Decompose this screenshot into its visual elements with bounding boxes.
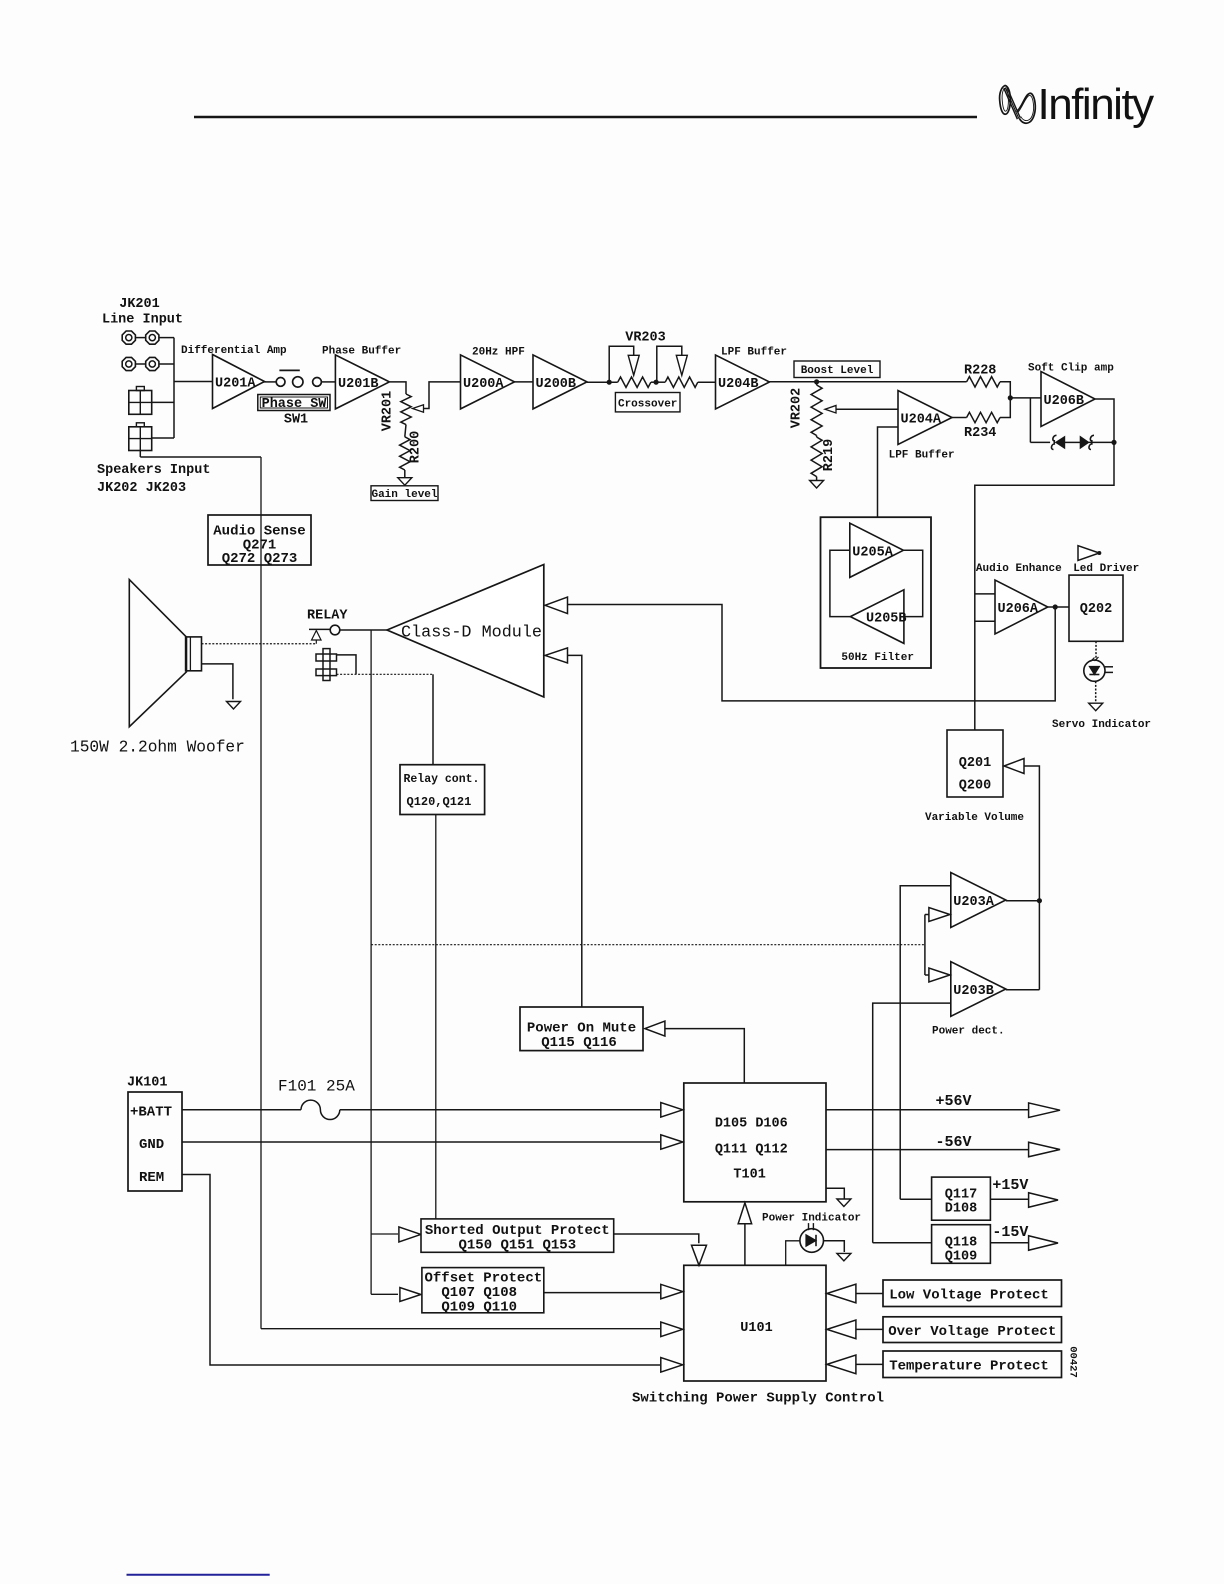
wire speakers sense to audio sense column	[140, 456, 261, 458]
svg-text:VR203: VR203	[625, 331, 666, 346]
node feedback right junction	[1111, 440, 1116, 445]
block U101 box	[684, 1265, 826, 1381]
op-amp U206B	[1041, 372, 1095, 427]
svg-text:U204B: U204B	[718, 377, 759, 392]
wire +BATT to fuse	[182, 1109, 301, 1111]
wire VR202 wiper to U204A	[836, 408, 898, 410]
wire bus to U201A	[174, 381, 213, 383]
svg-text:Q111 Q112: Q111 Q112	[715, 1143, 788, 1158]
wire power-on-mute feed from D105	[665, 1029, 745, 1083]
block Class-D Module triangle	[387, 565, 544, 698]
block 50Hz Filter box	[821, 517, 932, 668]
svg-text:Low Voltage Protect: Low Voltage Protect	[889, 1287, 1049, 1303]
svg-text:Q109 Q110: Q109 Q110	[441, 1300, 517, 1316]
arrow +15V	[1029, 1193, 1058, 1208]
ground below R200	[404, 470, 406, 478]
svg-text:LPF Buffer: LPF Buffer	[721, 347, 787, 359]
led driver symbol triangle	[1078, 546, 1099, 561]
wire U205A out loop	[903, 550, 922, 616]
arrow offset into U101	[661, 1284, 683, 1299]
arrow U203A lower input	[929, 908, 950, 922]
VR202 wiper arrow	[825, 405, 836, 413]
svg-text:-56V: -56V	[936, 1134, 972, 1151]
arrow into Q201 box	[1004, 759, 1024, 774]
svg-text:GND: GND	[139, 1137, 164, 1153]
arrow up into D105 from U101	[738, 1203, 752, 1224]
arrow GND into D105	[661, 1135, 683, 1150]
svg-text:Infinity: Infinity	[1038, 80, 1155, 129]
op-amp U200A	[461, 355, 515, 409]
svg-text:SW1: SW1	[284, 413, 308, 428]
node boost junction	[814, 379, 819, 384]
resistor R200	[405, 425, 406, 437]
node U203 out junction	[1037, 898, 1042, 903]
svg-text:R219: R219	[822, 439, 837, 471]
arrow into Power On Mute	[645, 1021, 665, 1036]
wire U206A out down to class-d return	[568, 605, 1056, 701]
block Q118 Q109 box	[932, 1225, 991, 1264]
wire -15V	[990, 1242, 1028, 1244]
wire R228 to junction	[1000, 382, 1010, 398]
svg-text:VR202: VR202	[790, 388, 805, 429]
svg-text:U203B: U203B	[953, 984, 994, 999]
block Temperature Protect box	[883, 1351, 1062, 1378]
svg-text:JK101: JK101	[127, 1076, 168, 1091]
arrow -15V	[1029, 1236, 1058, 1251]
wire U206A out to Q202	[1048, 606, 1069, 608]
svg-text:Variable Volume: Variable Volume	[925, 812, 1024, 824]
svg-text:Boost Level: Boost Level	[801, 365, 874, 377]
node soft clip input junction	[1008, 395, 1013, 400]
svg-text:Relay cont.: Relay cont.	[404, 773, 480, 786]
block Audio Sense box	[208, 515, 311, 565]
wire soft clip out down	[975, 442, 1114, 730]
svg-text:T101: T101	[733, 1168, 765, 1183]
connector JK101 box	[128, 1092, 182, 1191]
wire speakers sense down	[139, 451, 141, 458]
block Power On Mute box	[520, 1007, 643, 1051]
svg-text:Temperature Protect: Temperature Protect	[889, 1358, 1049, 1374]
ground below power indicator	[837, 1253, 851, 1261]
op-amp U201A	[213, 355, 265, 409]
svg-text:Crossover: Crossover	[618, 398, 677, 410]
svg-text:JK201: JK201	[119, 297, 160, 312]
svg-text:Over Voltage Protect: Over Voltage Protect	[888, 1324, 1056, 1340]
zener diode pair feedback	[1030, 441, 1050, 443]
ground at D105 right	[826, 1188, 844, 1199]
svg-text:+BATT: +BATT	[130, 1105, 172, 1121]
wire U204B out to R228	[770, 381, 967, 383]
svg-text:R234: R234	[964, 426, 996, 441]
svg-text:20Hz HPF: 20Hz HPF	[472, 347, 525, 359]
svg-text:Line Input: Line Input	[102, 313, 183, 328]
svg-text:+56V: +56V	[936, 1093, 972, 1110]
speaker 150W woofer	[129, 580, 186, 727]
wire U203 input bracket	[924, 915, 926, 976]
potentiometer VR202	[816, 382, 818, 385]
wire VR201 wiper to U200A	[424, 382, 461, 409]
wire relay coil jumper	[337, 655, 357, 674]
svg-text:Q120,Q121: Q120,Q121	[407, 795, 472, 809]
wire U204A out to R234	[952, 417, 967, 419]
VR201 wiper arrow	[413, 405, 424, 413]
VR203 wiper 1	[609, 346, 634, 382]
svg-text:U204A: U204A	[901, 413, 942, 428]
op-amp U204B	[716, 355, 770, 409]
wire U200A to U200B	[515, 381, 534, 383]
svg-text:U205A: U205A	[852, 545, 893, 560]
arrow U203B upper input	[929, 968, 950, 982]
svg-text:RELAY: RELAY	[307, 609, 348, 624]
arrow class-d upper input	[545, 597, 568, 614]
wire woofer cold to ground	[202, 664, 233, 699]
block Q201 Q200 box	[947, 730, 1003, 797]
node crossover junction 1	[607, 380, 612, 385]
wire U204A lower input to 50Hz filter	[878, 427, 899, 517]
label Phase SW box	[258, 395, 330, 411]
wire U205B out loop	[830, 550, 850, 616]
svg-text:Phase SW: Phase SW	[262, 397, 328, 412]
svg-text:Phase Buffer: Phase Buffer	[322, 346, 401, 358]
arrow into Offset Protect	[400, 1288, 421, 1302]
arrow audio-sense into U101	[661, 1322, 683, 1337]
svg-text:-15V: -15V	[992, 1224, 1028, 1241]
arrow +56V	[1029, 1103, 1060, 1118]
block Over Voltage Protect box	[883, 1317, 1062, 1343]
RCA jack JK201 top-left	[122, 331, 135, 344]
ground below woofer	[227, 702, 241, 710]
servo indicator LED	[1095, 641, 1097, 660]
wire fuse to D105	[340, 1109, 660, 1111]
relay actuate arrow	[312, 631, 322, 641]
op-amp U205A	[850, 523, 904, 577]
svg-text:Q272 Q273: Q272 Q273	[222, 551, 298, 567]
block Relay cont. box	[400, 765, 485, 815]
wire class-d lower input to power-on-mute column	[568, 655, 582, 1007]
svg-text:Switching Power Supply Control: Switching Power Supply Control	[632, 1391, 884, 1407]
label Gain level box	[371, 486, 438, 501]
svg-text:00427: 00427	[1067, 1346, 1079, 1378]
op-amp U200B	[533, 355, 587, 409]
svg-text:VR201: VR201	[381, 391, 396, 432]
svg-text:Class-D Module: Class-D Module	[401, 624, 542, 643]
fuse F101	[301, 1100, 340, 1119]
wire -56V	[826, 1149, 1028, 1151]
svg-text:U206B: U206B	[1044, 394, 1085, 409]
svg-text:Q202: Q202	[1080, 602, 1112, 617]
block Low Voltage Protect box	[883, 1280, 1062, 1307]
label Boost Level box	[794, 361, 880, 378]
node U206A out junction	[1053, 604, 1058, 609]
resistor R219	[816, 436, 818, 438]
op-amp U203A	[951, 873, 1006, 928]
wire power-dect feed from relay column	[371, 944, 925, 946]
svg-text:Q201: Q201	[959, 756, 991, 771]
arrow +BATT into D105	[661, 1103, 683, 1118]
wire input bus vertical	[173, 338, 175, 438]
wire woofer hot to relay (dashed)	[202, 643, 317, 645]
wire R234 to junction	[1000, 398, 1010, 418]
wire VR203 to U204B	[698, 381, 716, 383]
footer blue rule	[127, 1574, 270, 1576]
wire U206A upper input	[975, 593, 995, 595]
VR203 wiper 2	[657, 346, 682, 382]
svg-text:D105 D106: D105 D106	[715, 1117, 788, 1132]
svg-text:Led Driver: Led Driver	[1073, 563, 1139, 575]
svg-text:F101 25A: F101 25A	[278, 1078, 355, 1096]
op-amp U206A	[995, 580, 1048, 634]
relay coil symbol	[323, 649, 330, 681]
svg-text:Speakers Input: Speakers Input	[97, 463, 210, 478]
svg-text:Q109: Q109	[945, 1250, 977, 1265]
wire JK203 to bus	[152, 437, 174, 439]
op-amp U205B	[850, 590, 904, 644]
arrow -56V	[1029, 1142, 1060, 1157]
svg-text:D108: D108	[945, 1202, 977, 1217]
block Q117 D108 box	[932, 1177, 991, 1220]
svg-text:Power Indicator: Power Indicator	[762, 1213, 861, 1225]
potentiometer VR203 section 1	[618, 377, 651, 387]
potentiometer VR203 section 2	[665, 377, 698, 387]
svg-text:U200A: U200A	[463, 377, 504, 392]
svg-text:R200: R200	[409, 431, 424, 463]
wire +15V feed corner	[900, 1198, 931, 1200]
wire LED left to U101	[786, 1241, 800, 1266]
node crossover junction 2	[654, 380, 659, 385]
wire U206A lower input	[975, 620, 995, 622]
svg-text:U205B: U205B	[866, 612, 907, 627]
svg-text:U101: U101	[740, 1321, 772, 1336]
wire relay column to offset protect	[371, 1293, 398, 1295]
wire +56V	[826, 1109, 1028, 1111]
speaker input connector JK203	[129, 427, 152, 451]
wire -15V feed corner	[873, 1242, 932, 1244]
wire offset protect to U101	[544, 1292, 660, 1294]
block Shorted Output Protect box	[421, 1219, 614, 1252]
wire JK202 to bus	[152, 401, 174, 403]
svg-text:Q200: Q200	[959, 779, 991, 794]
block Offset Protect box	[422, 1268, 544, 1313]
wire jacks row1	[136, 337, 145, 339]
switch SW1 bar	[279, 369, 299, 371]
block D105 D106 Q111 Q112 T101 box	[684, 1083, 826, 1202]
relay switch	[309, 628, 330, 630]
block Q202 box	[1069, 575, 1123, 641]
switch SW1 contact middle	[293, 377, 303, 387]
wire U203B lower input	[873, 1003, 951, 1243]
arrow down into U101	[692, 1245, 707, 1265]
svg-text:Audio Enhance: Audio Enhance	[976, 563, 1062, 575]
svg-text:REM: REM	[139, 1170, 164, 1186]
arrow REM into U101	[661, 1358, 683, 1373]
wire U203A out	[1006, 900, 1040, 902]
wire +15V	[990, 1198, 1028, 1200]
arrow into Shorted Output Protect	[399, 1227, 421, 1242]
wire feedback left leg	[1029, 398, 1031, 443]
svg-text:U203A: U203A	[953, 895, 994, 910]
svg-text:Gain level: Gain level	[371, 489, 437, 501]
op-amp U204A	[898, 391, 952, 445]
header rule	[194, 116, 977, 119]
svg-text:U206A: U206A	[998, 602, 1039, 617]
wire jacks row2	[136, 363, 145, 365]
switch SW1 contact left	[264, 381, 277, 383]
svg-text:Q117: Q117	[945, 1188, 977, 1203]
power indicator LED	[800, 1229, 824, 1253]
arrow over voltage into U101	[827, 1320, 856, 1339]
wire LED right to ground	[824, 1241, 845, 1252]
svg-text:Q118: Q118	[945, 1236, 977, 1251]
wire Q201 arrow feed	[1024, 766, 1039, 990]
ground below R219	[816, 477, 818, 481]
op-amp U201B	[335, 355, 389, 409]
resistor R234	[967, 412, 1000, 422]
svg-text:+15V: +15V	[992, 1177, 1028, 1194]
op-amp U203B	[951, 962, 1006, 1017]
wire U206B out	[1095, 399, 1114, 443]
wire U203A upper input	[900, 886, 951, 1199]
svg-text:U201B: U201B	[338, 377, 379, 392]
wire audio sense to U101	[261, 1328, 660, 1330]
svg-text:LPF Buffer: LPF Buffer	[889, 450, 955, 462]
speaker input connector JK202	[129, 391, 152, 415]
svg-text:Power dect.: Power dect.	[932, 1026, 1005, 1038]
wire audio sense column	[260, 457, 262, 1329]
svg-text:150W 2.2ohm Woofer: 150W 2.2ohm Woofer	[70, 739, 245, 757]
svg-text:JK202 JK203: JK202 JK203	[97, 481, 186, 496]
RCA jack JK201 top-right	[146, 331, 159, 344]
RCA jack JK201 bottom-left	[122, 357, 135, 370]
wire relay column to shorted protect	[371, 1233, 398, 1235]
wire shorted protect to U101 top	[614, 1234, 699, 1243]
wire relay coil to relay cont (dashed)	[337, 673, 434, 675]
svg-text:U200B: U200B	[536, 377, 577, 392]
wire relay cont down to shorted protect	[435, 815, 437, 1219]
wire U203B out	[1006, 989, 1040, 991]
svg-text:Servo Indicator: Servo Indicator	[1052, 719, 1151, 731]
Infinity logo mark	[1000, 86, 1036, 124]
wire U201B out	[390, 382, 406, 394]
arrow class-d lower input	[545, 648, 568, 663]
svg-text:Q150 Q151 Q153: Q150 Q151 Q153	[458, 1238, 576, 1254]
node relay-classd junction, wire down	[370, 630, 372, 1294]
potentiometer VR201	[401, 394, 411, 425]
svg-text:Differential Amp: Differential Amp	[181, 345, 287, 357]
wire GND to D105	[182, 1141, 660, 1143]
switch SW1 contact right	[313, 378, 322, 387]
arrow low voltage into U101	[827, 1284, 856, 1303]
RCA jack JK201 bottom-right	[146, 357, 159, 370]
label Crossover box	[615, 393, 680, 412]
svg-text:Q115 Q116: Q115 Q116	[541, 1035, 617, 1051]
wire U200B out	[587, 381, 618, 383]
ground below servo LED	[1095, 681, 1097, 703]
wire REM down and right to U101	[182, 1175, 660, 1366]
svg-text:50Hz Filter: 50Hz Filter	[841, 652, 914, 664]
svg-text:U201A: U201A	[215, 377, 256, 392]
arrow temperature into U101	[827, 1355, 856, 1374]
wire junction to U206B	[1010, 397, 1041, 399]
